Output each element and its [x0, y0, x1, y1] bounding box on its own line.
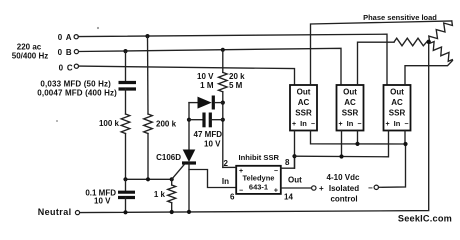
- svg-text:0,0047 MFD (400 Hz): 0,0047 MFD (400 Hz): [37, 88, 117, 97]
- wire pin14 out: [281, 187, 312, 189]
- scan speck 1: [97, 27, 99, 29]
- terminal + control: [312, 186, 316, 190]
- svg-text:In: In: [347, 119, 354, 128]
- svg-text:SeekIC.com: SeekIC.com: [398, 214, 452, 224]
- junction on B at 0.033 cap: [123, 49, 127, 53]
- svg-text:100 k: 100 k: [99, 119, 120, 128]
- svg-text:In: In: [222, 177, 229, 186]
- svg-text:+: +: [292, 121, 296, 128]
- svg-text:10 V: 10 V: [197, 72, 214, 81]
- svg-text:0,033 MFD (50 Hz): 0,033 MFD (50 Hz): [40, 79, 111, 88]
- svg-text:Neutral: Neutral: [38, 207, 72, 217]
- resistor RL2 horizontal: [394, 38, 427, 46]
- wire U2 + pin to bus: [294, 131, 296, 169]
- wire D1 anode down: [188, 103, 190, 150]
- svg-text:SSR: SSR: [389, 109, 406, 118]
- svg-text:10 V: 10 V: [94, 197, 111, 206]
- svg-text:10 V: 10 V: [204, 140, 221, 149]
- svg-text:Isolated: Isolated: [329, 184, 359, 193]
- svg-text:Out: Out: [288, 176, 302, 185]
- svg-text:14: 14: [284, 193, 293, 202]
- junction U3 -: [355, 142, 359, 146]
- svg-text:Out: Out: [297, 88, 311, 97]
- wire U2 out to load top: [311, 21, 452, 85]
- wire U3 out to load: [358, 42, 395, 85]
- svg-text:−: −: [311, 121, 315, 128]
- svg-text:4-10 Vdc: 4-10 Vdc: [327, 173, 360, 182]
- wire R2 bottom: [147, 134, 149, 180]
- junction R4/D1: [221, 101, 225, 105]
- resistor RL1 upper: [429, 21, 453, 41]
- svg-text:Out: Out: [390, 88, 404, 97]
- resistor RL3 lower: [430, 42, 452, 62]
- svg-text:47 MFD: 47 MFD: [194, 130, 223, 139]
- svg-text:20 k: 20 k: [229, 72, 245, 81]
- wire U4 - pin: [404, 131, 406, 145]
- wire lower bus +: [295, 131, 389, 157]
- SCR gate: [172, 164, 185, 179]
- svg-text:SSR: SSR: [342, 109, 359, 118]
- svg-text:control: control: [330, 195, 357, 204]
- diode D1: [189, 102, 198, 104]
- wire phase A: [78, 34, 387, 85]
- wire B to C1: [125, 51, 127, 81]
- svg-text:220 ac: 220 ac: [17, 43, 42, 52]
- svg-text:1 k: 1 k: [154, 190, 166, 199]
- svg-text:0 B: 0 B: [58, 48, 73, 57]
- junction load star node: [427, 40, 431, 44]
- svg-text:In: In: [300, 119, 307, 128]
- junction U3 +: [339, 154, 343, 158]
- junction pin8 bus: [292, 154, 296, 158]
- wire gate rail: [126, 178, 172, 180]
- svg-text:+: +: [319, 184, 324, 193]
- wire U3 - pin: [357, 131, 359, 144]
- junction R2 bottom: [146, 177, 150, 181]
- svg-text:1 M: 1 M: [200, 81, 214, 90]
- svg-text:C106D: C106D: [156, 153, 181, 162]
- wire phase C: [79, 66, 295, 85]
- svg-text:0 A: 0 A: [58, 33, 73, 42]
- junction gate node: [170, 177, 174, 181]
- svg-text:643-1: 643-1: [249, 183, 268, 192]
- SSR U4: [384, 85, 411, 131]
- wire R1 bottom: [125, 134, 127, 180]
- svg-text:5 M: 5 M: [229, 81, 243, 90]
- svg-text:Teledyne: Teledyne: [243, 174, 275, 183]
- svg-text:2: 2: [224, 159, 229, 168]
- junction on A: [145, 34, 149, 38]
- wire A to R2: [147, 36, 150, 114]
- svg-text:−: −: [274, 168, 278, 175]
- SSR U2: [290, 85, 317, 131]
- svg-text:−: −: [357, 121, 361, 128]
- svg-text:SSR: SSR: [295, 109, 312, 118]
- svg-text:AC: AC: [391, 98, 403, 107]
- wire neutral: [80, 42, 429, 213]
- wire U4 out to load: [405, 61, 453, 86]
- svg-text:Out: Out: [343, 88, 357, 97]
- junction R1/C4: [123, 177, 127, 181]
- junction neutral/C4: [123, 210, 127, 214]
- svg-text:−: −: [368, 184, 373, 193]
- junction U4 -: [403, 142, 407, 146]
- junction neutral/R3: [170, 210, 174, 214]
- svg-text:200 k: 200 k: [156, 120, 177, 129]
- junction neutral/SCR: [187, 210, 191, 214]
- wire - control to SSR bus: [379, 144, 406, 187]
- svg-text:AC: AC: [344, 98, 356, 107]
- wire SCR cathode to pin 6: [189, 170, 236, 188]
- wire U3 + pin: [341, 131, 343, 157]
- svg-text:50/400 Hz: 50/400 Hz: [12, 52, 48, 61]
- svg-text:Phase sensitive load: Phase sensitive load: [363, 13, 437, 22]
- svg-text:Inhibit SSR: Inhibit SSR: [239, 153, 280, 162]
- svg-text:In: In: [394, 119, 401, 128]
- svg-text:+: +: [386, 121, 390, 128]
- wire U2 - pin: [311, 131, 406, 145]
- wire phase B: [79, 48, 341, 85]
- junction R4/C3: [221, 118, 225, 122]
- svg-text:−: −: [404, 121, 408, 128]
- svg-text:8: 8: [285, 158, 290, 167]
- svg-text:AC: AC: [298, 98, 310, 107]
- wire SCR cathode down: [188, 163, 190, 212]
- svg-text:0 C: 0 C: [59, 64, 74, 73]
- svg-text:+: +: [274, 188, 278, 195]
- SSR U3: [337, 85, 364, 131]
- junction C3 left: [187, 118, 191, 122]
- svg-text:+: +: [339, 121, 343, 128]
- svg-text:−: −: [239, 188, 243, 195]
- wire C1 to R1: [125, 89, 127, 114]
- junction on B at 20k: [221, 48, 225, 52]
- svg-text:6: 6: [230, 193, 235, 202]
- scan speck 2: [56, 120, 58, 122]
